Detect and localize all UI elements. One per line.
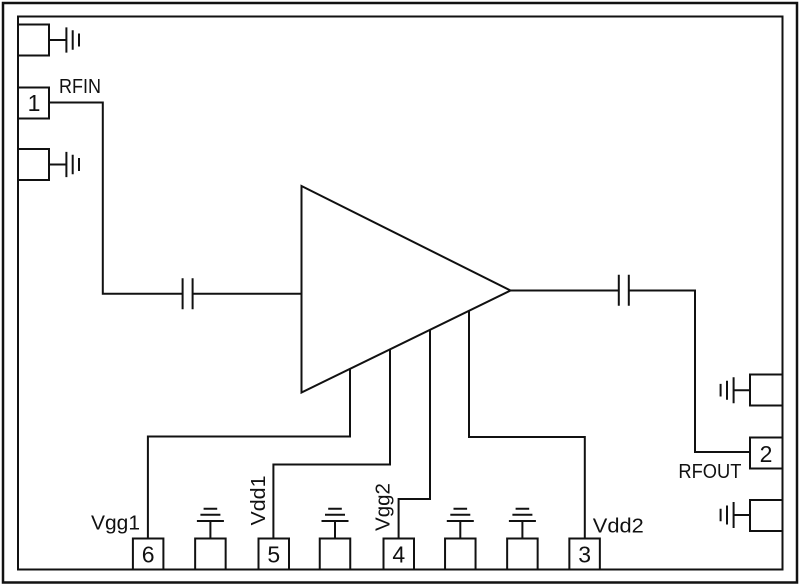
ground (bottom pad 1) bbox=[197, 509, 224, 538]
capacitor C2 bbox=[619, 275, 629, 306]
grounded pad bottom 1 bbox=[195, 539, 226, 570]
svg-text:RFIN: RFIN bbox=[59, 75, 101, 98]
svg-text:Vgg2: Vgg2 bbox=[372, 483, 395, 531]
ground (bottom pad 3) bbox=[447, 509, 474, 538]
svg-text:6: 6 bbox=[142, 541, 155, 567]
svg-text:3: 3 bbox=[578, 541, 591, 567]
svg-text:RFOUT: RFOUT bbox=[678, 460, 741, 483]
wire RFIN input bbox=[50, 103, 302, 294]
grounded pad bottom 4 bbox=[507, 539, 538, 570]
wire Vgg1 to pin 6 bbox=[148, 369, 350, 538]
grounded pad top-right bbox=[750, 375, 783, 406]
svg-text:Vdd2: Vdd2 bbox=[593, 514, 644, 537]
grounded pad bottom-right bbox=[750, 500, 783, 531]
pin 4 box bbox=[384, 539, 415, 570]
ground (top-left pad) bbox=[50, 27, 79, 52]
pin 5 box bbox=[259, 539, 290, 570]
svg-text:5: 5 bbox=[267, 541, 280, 567]
pin 3 box bbox=[569, 539, 600, 570]
svg-text:Vdd1: Vdd1 bbox=[247, 476, 270, 526]
ground (mid-left pad) bbox=[50, 152, 79, 177]
grounded pad top-left bbox=[18, 25, 49, 56]
pin 2 box bbox=[750, 438, 783, 469]
wire Vgg2 to pin 4 bbox=[399, 330, 430, 538]
grounded pad mid-left bbox=[18, 149, 49, 180]
svg-text:2: 2 bbox=[760, 441, 773, 467]
svg-text:4: 4 bbox=[392, 541, 405, 567]
capacitor C1 bbox=[183, 278, 193, 309]
grounded pad bottom 3 bbox=[445, 539, 476, 570]
ground (top-right pad) bbox=[721, 377, 750, 403]
ground (bottom pad 2) bbox=[322, 509, 349, 538]
pin 1 box bbox=[18, 88, 49, 119]
wire RFOUT output bbox=[511, 291, 750, 453]
pin 6 box bbox=[133, 539, 164, 570]
amplifier A1 bbox=[302, 186, 511, 393]
ground (bottom pad 4) bbox=[509, 509, 536, 538]
ground (bottom-right pad) bbox=[721, 502, 750, 528]
wire Vdd1 to pin 5 bbox=[273, 349, 390, 538]
wire Vdd2 to pin 3 bbox=[469, 311, 585, 538]
svg-text:1: 1 bbox=[28, 90, 41, 116]
grounded pad bottom 2 bbox=[320, 539, 351, 570]
svg-text:Vgg1: Vgg1 bbox=[91, 511, 140, 534]
